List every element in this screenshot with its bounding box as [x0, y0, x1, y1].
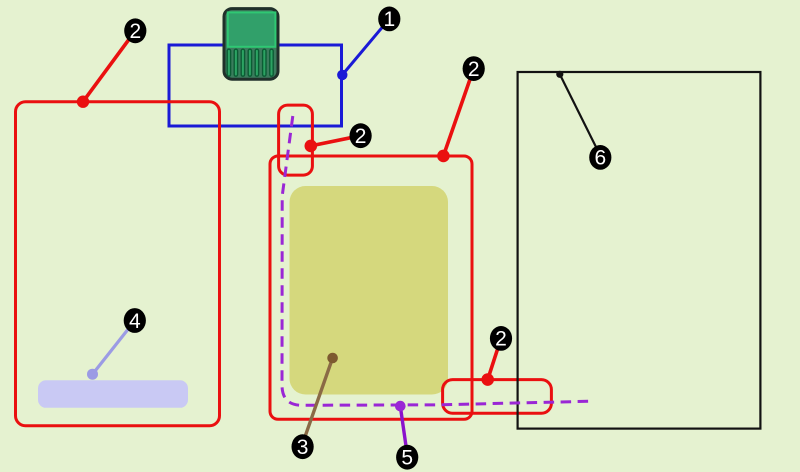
node 6: black	[556, 71, 611, 170]
node 2d: red lower-right	[481, 326, 512, 386]
region: left red box	[16, 102, 220, 426]
wire: blue rectangle net	[169, 45, 342, 126]
svg-text:6: 6	[594, 147, 606, 170]
node 2a: red top-left	[77, 18, 147, 108]
svg-text:2: 2	[468, 58, 480, 81]
svg-text:3: 3	[297, 436, 309, 459]
connector U1	[224, 9, 278, 80]
region: small top red box	[279, 105, 313, 175]
node 3: brown	[292, 353, 338, 459]
node 2b: red middle	[305, 123, 372, 152]
fill: yellow area	[290, 186, 449, 395]
svg-text:2: 2	[495, 328, 507, 351]
node 4: lavender	[87, 308, 146, 380]
svg-text:4: 4	[129, 310, 141, 333]
region: black box	[518, 72, 761, 429]
region: bottom right red box	[443, 380, 552, 414]
svg-text:2: 2	[129, 20, 141, 43]
component: lavender bar	[38, 380, 188, 408]
node 2c: red upper-right	[437, 56, 485, 162]
svg-text:1: 1	[383, 8, 395, 31]
svg-text:5: 5	[401, 447, 413, 470]
region: middle red box	[270, 156, 472, 419]
node 1: blue	[337, 7, 400, 81]
svg-text:2: 2	[355, 125, 367, 148]
node 5: purple	[395, 401, 418, 470]
wire: purple dashed path	[282, 116, 592, 405]
